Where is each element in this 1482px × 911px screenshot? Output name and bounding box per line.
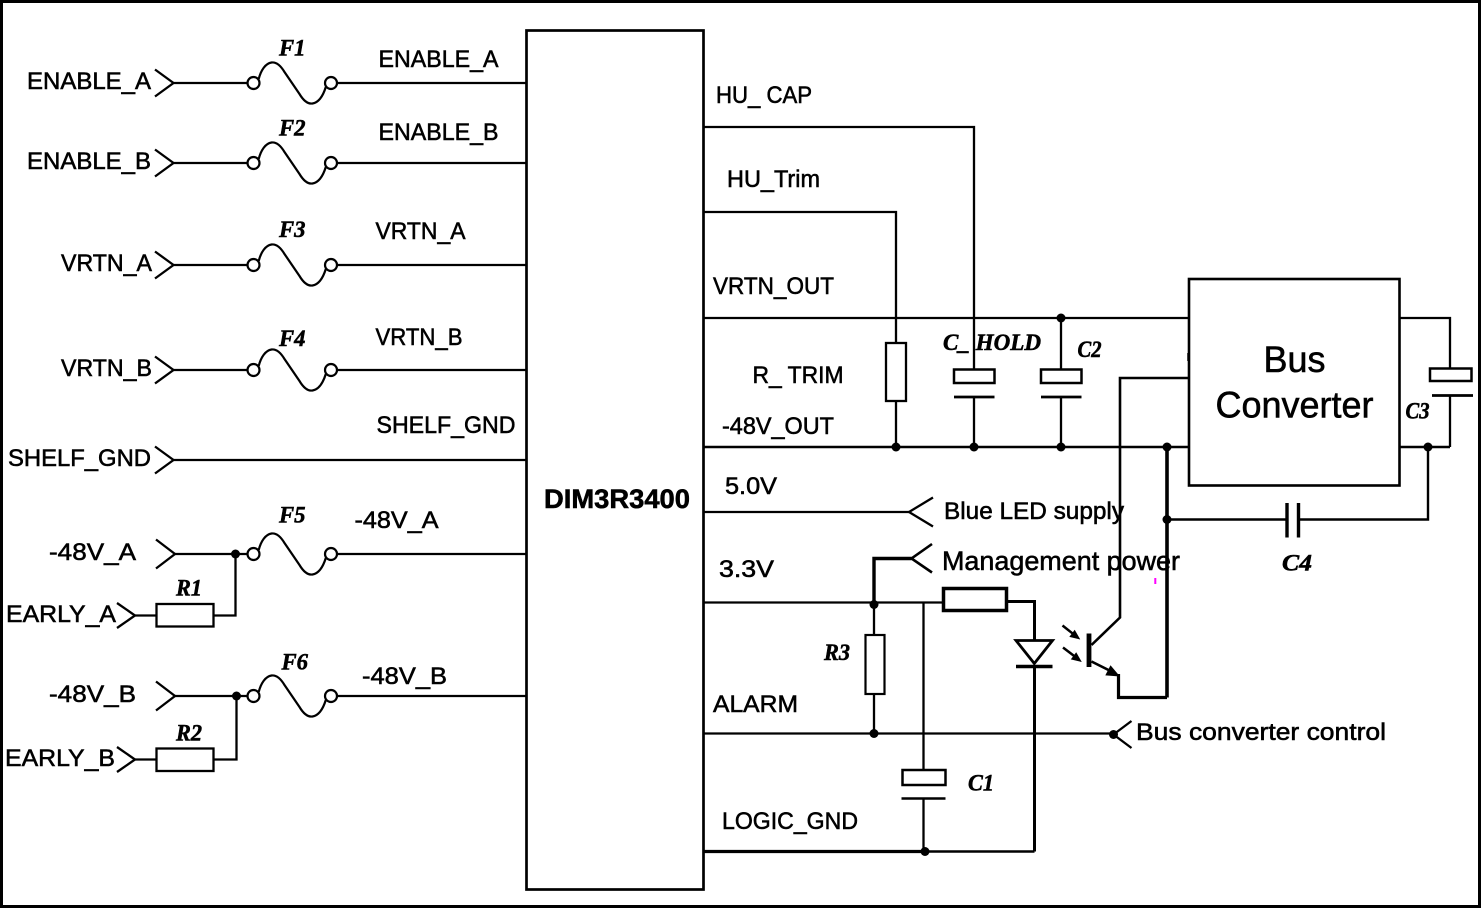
svg-text:F1: F1 — [278, 36, 305, 61]
wire LOGIC_GND to LED cathode riser — [925, 850, 1035, 852]
svg-text:HU_Trim: HU_Trim — [727, 166, 820, 193]
svg-text:LOGIC_GND: LOGIC_GND — [722, 808, 858, 835]
resistor R3 — [866, 635, 885, 694]
wire riser to -48V_OUT — [1165, 447, 1169, 698]
svg-text:ALARM: ALARM — [713, 691, 798, 718]
wire fuse F1 to DIM3R3400 — [337, 82, 528, 84]
input connector arrow ENABLE_B — [155, 150, 174, 177]
wire C3 to -48V_OUT extension — [1449, 396, 1451, 448]
svg-text:EARLY_B: EARLY_B — [5, 745, 115, 772]
wire HU_Trim net — [704, 212, 897, 343]
wire 3.3V to R3 — [873, 605, 875, 636]
wire -48V_B to fuse F6 — [174, 695, 248, 697]
svg-text:-48V_A: -48V_A — [49, 539, 136, 566]
junction R_TRIM / -48V_OUT — [892, 443, 901, 452]
wire -48V_A to fuse F5 — [174, 553, 248, 555]
wire C_HOLD to -48V_OUT — [973, 397, 975, 447]
output connector arrow Blue LED supply — [909, 498, 933, 527]
fuse F5 — [248, 533, 338, 574]
input connector arrow SHELF_GND — [155, 447, 174, 474]
phototransistor collector to Bus Converter — [1092, 378, 1190, 645]
converter module Bus Converter — [1189, 279, 1400, 486]
wire VRTN_B to fuse F4 — [173, 369, 249, 371]
svg-text:ENABLE_A: ENABLE_A — [379, 46, 499, 73]
stray magenta mark — [1154, 578, 1156, 584]
svg-text:3.3V: 3.3V — [719, 556, 774, 583]
wire LED cathode to LOGIC_GND — [1033, 667, 1036, 852]
pin stub on Bus Converter left edge — [1187, 353, 1190, 361]
resistor (LED series, unlabeled) — [944, 589, 1007, 611]
junction -48V_A / R1 — [231, 550, 240, 559]
svg-text:ENABLE_B: ENABLE_B — [379, 119, 499, 146]
junction C_HOLD / -48V_OUT — [970, 443, 979, 452]
junction -48V_OUT / optocoupler emitter riser — [1163, 443, 1172, 452]
output connector arrow Bus converter control — [1114, 721, 1132, 748]
svg-text:SHELF_GND: SHELF_GND — [8, 445, 151, 472]
fuse F6 — [248, 675, 338, 716]
fuse F1 — [248, 62, 338, 103]
svg-text:F6: F6 — [281, 650, 309, 675]
input connector arrow ENABLE_A — [155, 70, 174, 97]
svg-text:C2: C2 — [1078, 337, 1102, 362]
wire VRTN_A to fuse F3 — [173, 264, 249, 266]
wire R1 to -48V_A junction — [214, 554, 236, 616]
svg-text:ENABLE_B: ENABLE_B — [27, 148, 151, 175]
svg-text:C_ HOLD: C_ HOLD — [943, 330, 1041, 355]
wire EARLY_A to R1 — [134, 614, 157, 616]
LED D1 (optocoupler diode) — [1016, 641, 1053, 667]
svg-text:EARLY_A: EARLY_A — [6, 601, 116, 628]
wire LOGIC_GND (thick segment) — [704, 850, 926, 853]
wire resistor to LED anode — [1007, 602, 1035, 642]
svg-text:R2: R2 — [175, 721, 202, 746]
optocoupler light arrow 1 — [1063, 626, 1081, 640]
wire emitter to -48V_OUT riser — [1119, 674, 1168, 698]
wire C1 to LOGIC_GND — [922, 799, 924, 852]
wire C2 top lead — [1060, 318, 1062, 370]
wire riser to C4 — [1167, 518, 1287, 520]
resistor R2 — [157, 749, 214, 772]
input connector arrow VRTN_B — [155, 357, 174, 384]
fuse F3 — [248, 244, 338, 285]
fuse F2 — [248, 142, 338, 183]
wire fuse F4 to DIM3R3400 — [337, 369, 528, 371]
resistor R_TRIM — [886, 343, 906, 401]
wire R3 to ALARM — [873, 694, 875, 734]
svg-text:-48V_B: -48V_B — [362, 663, 447, 690]
svg-text:R3: R3 — [823, 640, 850, 665]
wire C4 to -48V_OUT extension — [1299, 447, 1429, 520]
wire ENABLE_A to fuse F1 — [173, 82, 249, 84]
junction at Bus converter control arrow — [1109, 730, 1118, 739]
input connector arrow EARLY_A — [117, 603, 135, 628]
fuse F4 — [248, 349, 338, 390]
svg-text:HU_ CAP: HU_ CAP — [716, 82, 812, 109]
svg-text:R_ TRIM: R_ TRIM — [753, 362, 844, 389]
wire fuse F5 to DIM3R3400 — [337, 553, 528, 555]
junction LOGIC_GND / C1 — [921, 847, 930, 856]
input connector arrow -48V_B — [156, 682, 175, 711]
svg-text:R1: R1 — [175, 576, 202, 601]
junction -48V_B / R2 — [232, 692, 241, 701]
wire HU_CAP net — [704, 127, 975, 370]
optocoupler light arrow 2 — [1063, 648, 1082, 663]
wire fuse F6 to DIM3R3400 — [337, 695, 528, 697]
output connector arrow Management power — [912, 544, 933, 573]
svg-text:C4: C4 — [1282, 551, 1312, 576]
input connector arrow EARLY_B — [117, 747, 135, 772]
wire C2 to -48V_OUT — [1060, 397, 1062, 447]
junction R3 / ALARM — [870, 729, 879, 738]
svg-text:Bus: Bus — [1264, 339, 1326, 380]
wire Management power (thick) — [874, 559, 912, 605]
svg-text:VRTN_B: VRTN_B — [61, 355, 152, 382]
junction 3.3V / R3 / Management power — [870, 600, 879, 609]
svg-text:C1: C1 — [968, 771, 994, 796]
svg-text:VRTN_B: VRTN_B — [376, 324, 463, 351]
svg-text:Blue LED supply: Blue LED supply — [944, 498, 1124, 525]
wire fuse F2 to DIM3R3400 — [337, 162, 528, 164]
wire 5.0V to Blue LED supply — [704, 511, 910, 513]
svg-text:-48V_B: -48V_B — [49, 681, 136, 708]
svg-text:VRTN_A: VRTN_A — [61, 250, 152, 277]
input connector arrow -48V_A — [156, 540, 175, 569]
capacitor C_HOLD — [954, 370, 995, 398]
wire ALARM to Bus converter control — [704, 732, 1114, 734]
resistor R1 — [157, 604, 214, 627]
svg-text:SHELF_GND: SHELF_GND — [377, 412, 516, 439]
capacitor C4 — [1287, 503, 1299, 538]
capacitor C3 — [1430, 369, 1473, 396]
svg-text:F2: F2 — [278, 116, 305, 141]
svg-text:F4: F4 — [278, 326, 305, 351]
wire SHELF_GND to DIM3R3400 — [173, 459, 528, 461]
wire EARLY_B to R2 — [134, 758, 157, 760]
svg-text:Converter: Converter — [1216, 385, 1374, 426]
wire -48V_OUT to Bus Converter — [704, 446, 1190, 448]
wire fuse F3 to DIM3R3400 — [337, 264, 528, 266]
junction C4 / -48V_OUT extension — [1424, 443, 1433, 452]
svg-text:-48V_A: -48V_A — [355, 507, 439, 534]
capacitor C2 — [1041, 370, 1082, 398]
junction VRTN_OUT / C2 — [1057, 314, 1066, 323]
phototransistor Q1 base bar — [1087, 634, 1092, 668]
svg-text:VRTN_A: VRTN_A — [376, 218, 466, 245]
svg-text:ENABLE_A: ENABLE_A — [27, 68, 151, 95]
wire ENABLE_B to fuse F2 — [173, 162, 249, 164]
svg-text:F3: F3 — [278, 217, 305, 242]
wire -48V_OUT extension — [1400, 446, 1451, 448]
svg-text:VRTN_OUT: VRTN_OUT — [713, 273, 834, 300]
junction riser / C4 — [1163, 515, 1172, 524]
svg-text:DIM3R3400: DIM3R3400 — [544, 484, 690, 514]
svg-text:-48V_OUT: -48V_OUT — [722, 413, 834, 440]
svg-text:C3: C3 — [1406, 399, 1430, 424]
input connector arrow VRTN_A — [155, 252, 174, 279]
svg-text:Management power: Management power — [942, 546, 1180, 576]
wire R2 to -48V_B junction — [214, 696, 237, 760]
IC U1 DIM3R3400 — [527, 31, 704, 890]
svg-text:F5: F5 — [278, 503, 305, 528]
wire VRTN_OUT to Bus Converter — [704, 317, 1190, 319]
capacitor C1 — [902, 770, 946, 799]
junction C2 / -48V_OUT — [1057, 443, 1066, 452]
phototransistor emitter — [1092, 662, 1121, 677]
svg-text:Bus converter control: Bus converter control — [1136, 719, 1386, 746]
wire R_TRIM to -48V_OUT — [895, 401, 897, 447]
wire 3.3V to C1 — [922, 603, 924, 771]
wire 3.3V net — [704, 601, 944, 603]
wire VRTN_OUT extension to C3 — [1400, 318, 1451, 369]
svg-text:5.0V: 5.0V — [725, 473, 777, 500]
